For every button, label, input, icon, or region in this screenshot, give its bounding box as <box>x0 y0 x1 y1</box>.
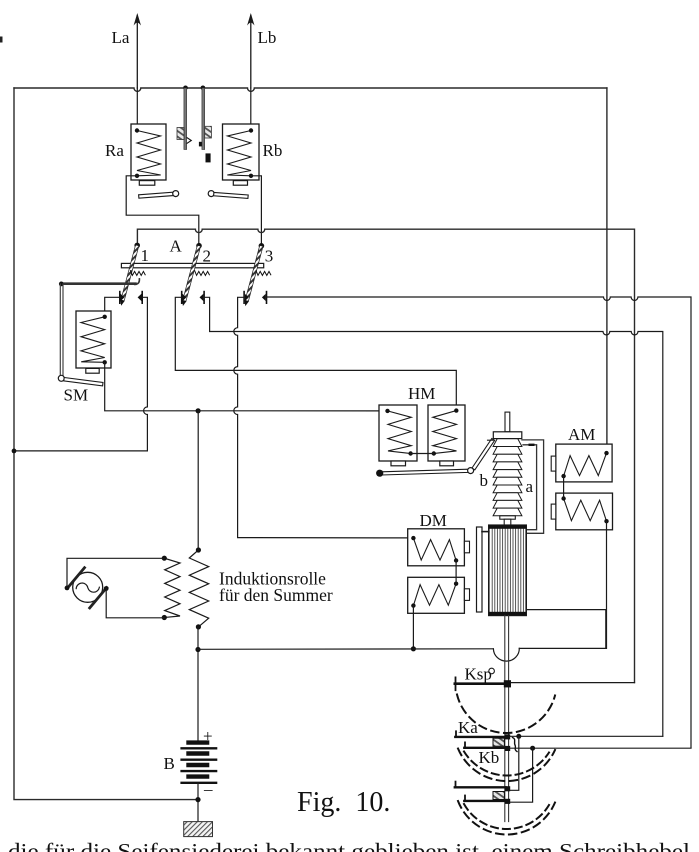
cam circles (dashed pair) below Kb <box>458 749 555 782</box>
wire: drum lower right to AM/bus riser <box>526 610 606 649</box>
svg-text:+: + <box>203 727 213 746</box>
governor cap plate <box>493 432 522 439</box>
rest bar of arm 1 (thick stop with hook) <box>59 279 140 287</box>
wire: A bus y=229.2 from arm1 stub to right side, hops at arm2/arm3 wires <box>137 229 634 682</box>
wire: summer upper terminal to secondary top <box>67 558 164 588</box>
wire: AM series link <box>563 476 565 498</box>
svg-text:Lb: Lb <box>258 28 277 47</box>
relay SM coil box with winding <box>76 311 111 368</box>
node: junction Ka drop <box>516 734 521 739</box>
contact arm 3 (hatched, with tip arrow) <box>245 245 263 306</box>
frame bracket inner (cap to drum right) <box>523 445 537 530</box>
wire: main bus from junction to shaft arc <box>198 648 493 651</box>
lower contact 1 shaft block <box>505 786 510 791</box>
insulating cam block of lower set (hatched) <box>493 792 504 800</box>
svg-text:Rb: Rb <box>263 141 283 160</box>
governor cone skirt stack <box>493 439 522 516</box>
relay AM lower coil box with winding <box>551 493 612 530</box>
contact Ksp bar with end tick <box>455 677 505 690</box>
relay HM right coil box with winding <box>428 405 465 461</box>
line Lb lead with arrow <box>247 13 254 88</box>
relay Ra armature hanger bar <box>177 88 191 150</box>
wire: Lb drop into relay Rb coil <box>250 88 252 131</box>
node: junction on left border <box>12 449 17 454</box>
svg-text:Ksp: Ksp <box>465 665 492 684</box>
node 3: contact arm 3 pivot <box>259 243 265 249</box>
spring brace between Ka and Kb contacts <box>513 738 518 752</box>
relay HM left coil box with winding <box>379 405 417 461</box>
svg-text:A: A <box>170 237 183 256</box>
node: junction main bus / battery feed <box>195 647 200 652</box>
relay HM pole feet <box>391 461 454 466</box>
contact arm 1 (hatched, with tip arrow) <box>120 245 138 306</box>
spring squiggle under bar at arm 3 <box>256 271 271 276</box>
svg-text:Fig. 10.: Fig. 10. <box>297 787 390 818</box>
page-edge letter fragment top left <box>0 37 3 43</box>
contact pair of arm 3: right fixed contact <box>262 292 267 304</box>
governor bottom plate and stem to drum <box>500 516 516 525</box>
wire: right vertical x=607 from top border down to AM upper coil <box>606 88 608 453</box>
svg-text:AM: AM <box>568 425 595 444</box>
transformer: induction coil primary (right winding) <box>189 547 208 629</box>
wire: SM coil bottom to bus y=411 towards HM (vertical x147 hops it) <box>105 362 198 411</box>
wire: Rb coil bottom to contact arm 3 (hops the A bus) <box>251 176 261 246</box>
node: junction Kb drop <box>530 746 535 751</box>
svg-text:HM: HM <box>408 384 435 403</box>
contact pair of arm 2: right fixed contact <box>200 292 205 304</box>
svg-text:a: a <box>526 477 534 496</box>
wire: battery bottom to ground junction <box>197 783 199 822</box>
relay Ra pole foot <box>139 181 155 186</box>
wire: summer lower terminal to secondary bottom <box>106 589 164 618</box>
spring squiggle under bar at arm 2 <box>195 271 210 276</box>
svg-text:Ra: Ra <box>105 141 124 160</box>
svg-text:La: La <box>112 28 130 47</box>
wire: HM series link between coils <box>411 453 434 455</box>
contact Ka shaft block <box>505 734 510 739</box>
node 2: contact arm 2 pivot <box>196 243 202 249</box>
wire: switch1 left contact down to SM coil top <box>105 297 120 317</box>
lower contact bar 1 with end tick <box>455 782 506 788</box>
armature bar A (common bar across arms) <box>121 263 263 267</box>
wire: main bus arc hopping around drum shaft <box>493 648 519 661</box>
wire: DM lower coil down to main bus junction <box>412 606 414 649</box>
node: junction bus/induction primary riser <box>196 408 201 413</box>
label Induktionsrolle fuer den Summer <box>219 569 333 606</box>
roller circle at arc start <box>489 668 495 674</box>
cam circles (dashed pair) at shaft end <box>458 801 555 834</box>
contact pair of arm 2: left fixed contact <box>182 292 187 304</box>
node: summer lower terminal <box>104 586 109 591</box>
wire: switch3 right contact to Kb riser (dips at x607,x635) <box>267 297 692 748</box>
wire: primary top to bus junction y=411 <box>197 411 199 550</box>
relay DM upper coil box with winding <box>408 529 470 566</box>
wire: Ka contact out to the right <box>510 735 663 737</box>
solder blob on inner bracket <box>529 444 535 446</box>
summer hammer bar lower <box>90 588 107 608</box>
wire: switch2 right contact down then right to Ka riser (dips at x607,x635) <box>204 297 663 736</box>
relay SM pole foot <box>86 368 99 373</box>
wire: switch3 left contact down to DM (hops three horizontals) <box>234 297 414 538</box>
node: junction battery negative / left border return <box>195 797 200 802</box>
wire: La drop into relay Ra coil <box>136 88 138 131</box>
wire: Kb drop to lower contact set <box>510 748 532 802</box>
mechanical link: lever from HM armature to governor cap <box>468 439 495 474</box>
svg-text:Kb: Kb <box>479 748 500 767</box>
wire: DM series link <box>455 561 457 584</box>
wire: top border horizontal y=88 with hops at La and Lb, corner down at right <box>14 88 607 91</box>
node 1: contact arm 1 pivot <box>134 243 140 249</box>
transformer: induction coil secondary (left winding) <box>162 556 180 621</box>
wire: Ra coil bottom to contact arm 2 (hops the A bus) <box>126 176 199 246</box>
wire: left border from top-left corner down and bottom run to battery <box>14 88 198 800</box>
svg-text:Ka: Ka <box>458 718 478 737</box>
wire: Ksp contact to riser x=635 <box>511 682 635 684</box>
drum shaft (double line) below drum <box>505 615 509 821</box>
svg-text:SM: SM <box>64 386 89 405</box>
wire: bus y=411 continuing right into HM left coil <box>198 410 387 412</box>
node: armature suspension dot on top bus (right) <box>201 86 206 91</box>
lower contact bar 2 with end tick <box>464 796 505 801</box>
wire: Ka drop to lower contact set <box>510 736 519 790</box>
lower contact 2 shaft block <box>505 799 510 804</box>
contact Kb bar with end tick <box>464 742 505 747</box>
svg-text:3: 3 <box>265 247 274 266</box>
relay Rb coil box with winding <box>223 124 260 180</box>
contact pair of arm 3: left fixed contact <box>244 292 249 304</box>
relay Ra armature lever with pivot circle <box>139 191 179 199</box>
cam circle (dashed) below Ksp <box>457 695 555 733</box>
relay Rb pole foot <box>233 181 247 186</box>
brush bar left of drum <box>477 527 489 612</box>
svg-text:B: B <box>164 754 175 773</box>
relay DM lower coil box with winding <box>408 577 470 613</box>
line La lead with arrow <box>134 13 141 88</box>
relay Ra coil box with winding <box>131 124 166 180</box>
node: summer upper terminal <box>65 586 70 591</box>
relay AM upper coil box with winding <box>551 444 612 482</box>
svg-text:die für die Seifensiederei bek: die für die Seifensiederei bekannt gebli… <box>8 839 690 852</box>
contact pair of arm 1: left fixed contact (bar+arrow) <box>120 292 125 304</box>
wire: switch2 left contact down then right to HM right coil <box>175 297 456 410</box>
svg-text:1: 1 <box>141 246 150 265</box>
wire: switch1 right contact to left border (hops SM bus) <box>14 297 147 451</box>
contact Ka bar with end tick <box>455 731 505 737</box>
contact pair of arm 1: right fixed contact (bar+arrow) <box>138 292 143 304</box>
insulating cam block between Ka and Kb (hatched) <box>493 738 504 746</box>
frame bracket outer (cap to drum right) <box>522 440 544 533</box>
node: junction DM wire / main bus <box>411 646 416 651</box>
summer hammer bar upper <box>67 568 84 589</box>
relay Rb armature lever with pivot circle <box>208 191 248 199</box>
battery B <box>182 743 217 783</box>
wire: AM lower coil down to main bus corner <box>519 521 606 648</box>
motor drum cylinder <box>489 525 526 615</box>
contact arm 2 (hatched, with tip arrow) <box>182 245 200 306</box>
svg-text:DM: DM <box>420 511 447 530</box>
governor top stem <box>505 412 510 432</box>
relay Rb armature hanger bar <box>199 88 212 162</box>
svg-text:für den Summer: für den Summer <box>219 585 333 605</box>
wire: Kb contact out to the right <box>510 747 691 749</box>
wire: primary bottom to main bus junction and on to battery <box>197 627 199 741</box>
svg-text:b: b <box>480 471 489 490</box>
svg-text:–: – <box>203 780 213 799</box>
contact Ksp shaft block <box>504 680 511 687</box>
svg-text:2: 2 <box>203 247 212 266</box>
relay SM armature lever with pivot circle <box>58 375 103 386</box>
mechanical link: double line from rest bar down to SM lever <box>60 284 63 376</box>
governor flange stub left of cap <box>488 439 494 441</box>
node: armature suspension dot on top bus (left) <box>183 86 188 91</box>
spring squiggle under bar at arm 1 <box>130 271 145 276</box>
ground pad (hatched) <box>184 822 213 837</box>
relay HM armature bar with end dot <box>376 469 469 477</box>
summer interrupter: AC circle <box>73 572 103 602</box>
contact Kb shaft block <box>505 746 510 751</box>
